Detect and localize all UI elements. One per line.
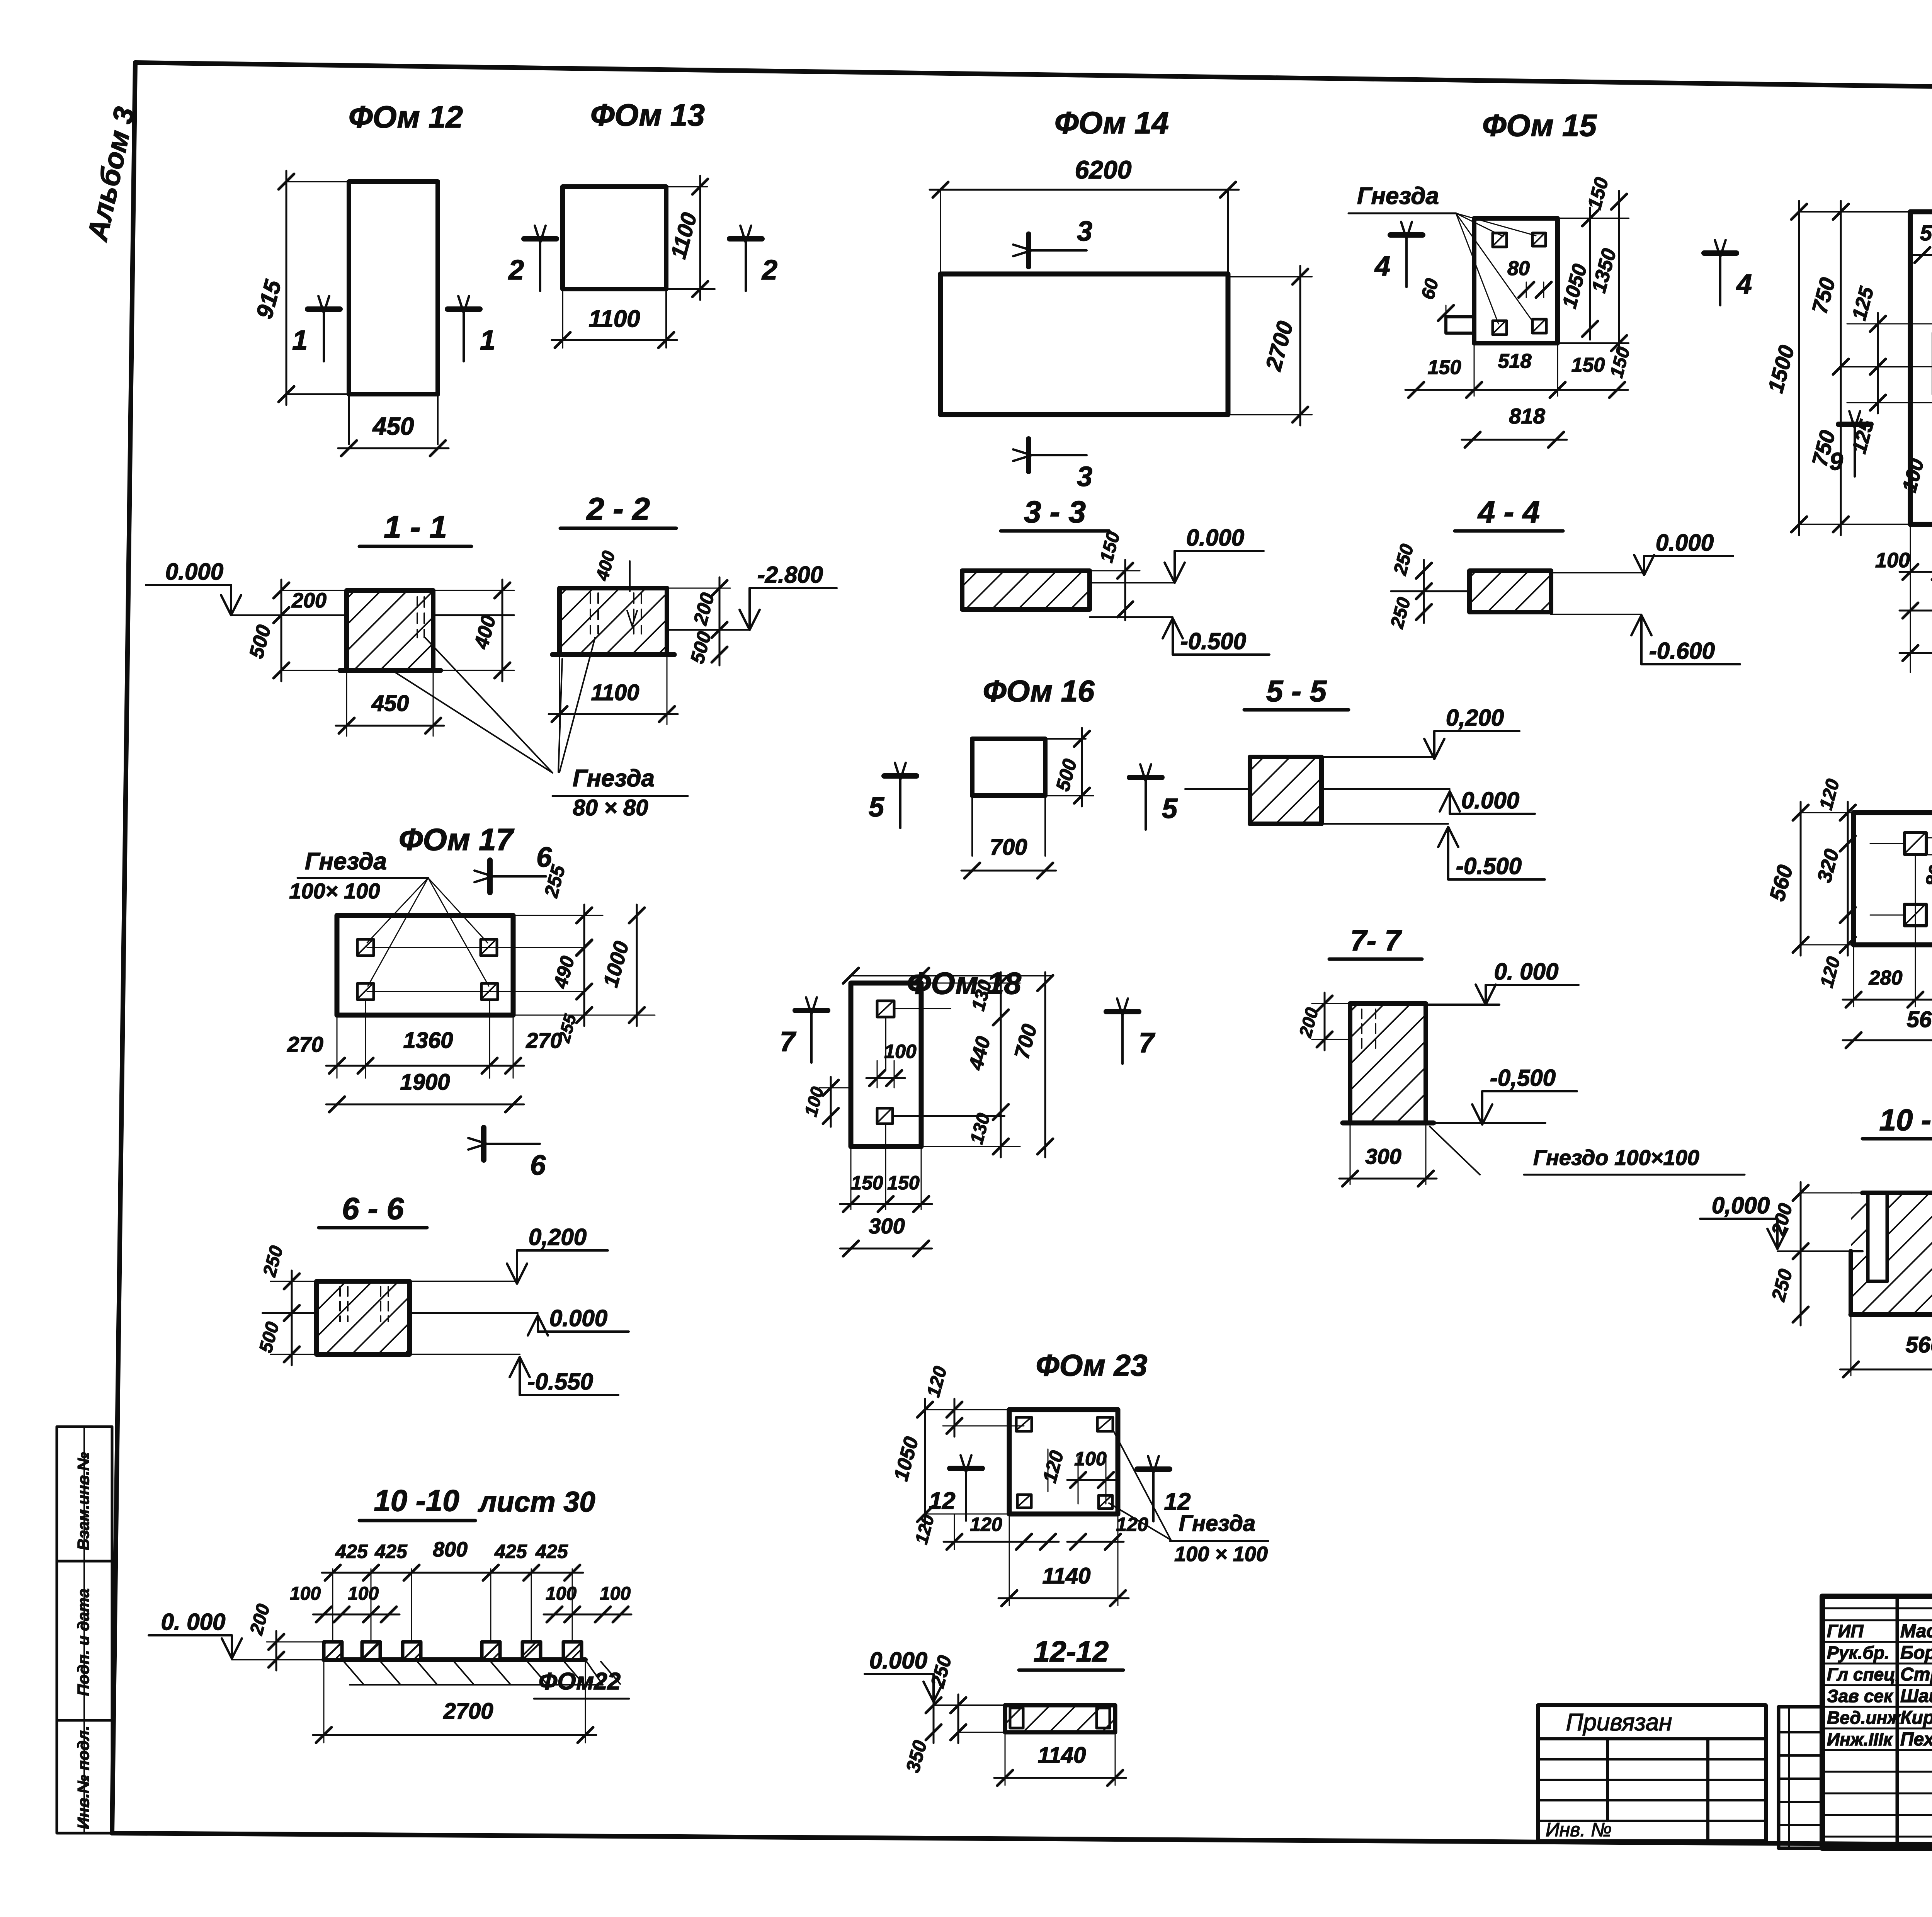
dim 150 (3-3) bbox=[1090, 529, 1140, 620]
svg-text:-0,500: -0,500 bbox=[1490, 1065, 1556, 1091]
dim 255 top right (FOm17) bbox=[513, 862, 603, 959]
svg-text:Инв.№ подл.: Инв.№ подл. bbox=[74, 1726, 92, 1829]
svg-text:0.000: 0.000 bbox=[1461, 788, 1519, 813]
svg-text:-2.800: -2.800 bbox=[757, 562, 823, 588]
svg-text:3 - 3: 3 - 3 bbox=[1024, 495, 1086, 529]
section marker 12 left (FOm23) bbox=[929, 1455, 982, 1521]
dim 100 inner (FOm19) bbox=[1898, 456, 1928, 495]
sockets hidden (2-2) bbox=[590, 593, 641, 634]
svg-text:0. 000: 0. 000 bbox=[161, 1609, 226, 1635]
label FOm13 bbox=[590, 98, 705, 132]
dims 425-425-800-425-425 (FOm22) bbox=[322, 1538, 583, 1642]
svg-text:425: 425 bbox=[335, 1541, 368, 1562]
svg-text:150: 150 bbox=[887, 1172, 920, 1194]
socket L-bottom (FOm20) bbox=[1905, 904, 1926, 926]
label FOm17 bbox=[399, 822, 515, 857]
svg-text:518: 518 bbox=[1498, 350, 1532, 373]
svg-text:ФОм 14: ФОм 14 bbox=[1054, 105, 1169, 140]
elevation -0.550 (6-6) bbox=[410, 1354, 618, 1395]
elevation 0.000 (3-3) bbox=[1090, 525, 1264, 583]
dim 50-250-50 (FOm19) bbox=[1912, 212, 1932, 514]
label FOm18 bbox=[907, 966, 1022, 1000]
svg-text:6200: 6200 bbox=[1075, 155, 1132, 184]
label FOm12 bbox=[349, 100, 463, 134]
svg-text:Кирьянова: Кирьянова bbox=[1900, 1708, 1932, 1728]
svg-text:0.000: 0.000 bbox=[1656, 530, 1714, 556]
dims right 150-1050-1350 (FOm15) bbox=[1558, 175, 1634, 380]
dim 700 (FOm16) bbox=[961, 835, 1056, 878]
svg-text:100: 100 bbox=[884, 1041, 917, 1062]
svg-text:560: 560 bbox=[1906, 1332, 1932, 1357]
socket A (FOm15) bbox=[1493, 233, 1507, 247]
section marker 12 right (FOm23) bbox=[1137, 1456, 1190, 1521]
dim 6200 (FOm14) bbox=[930, 155, 1239, 274]
section 3-3 hatched bar bbox=[962, 571, 1090, 609]
svg-text:425: 425 bbox=[494, 1541, 527, 1562]
label section 10-10 bbox=[1862, 1103, 1932, 1139]
svg-text:Пехенько: Пехенько bbox=[1900, 1729, 1932, 1750]
section marker 5 right (FOm16) bbox=[1129, 764, 1178, 830]
svg-text:Зав сек: Зав сек bbox=[1827, 1686, 1894, 1706]
block FOm23 plan outline bbox=[1009, 1410, 1118, 1514]
elevation 0.000 (12-12) bbox=[865, 1648, 1005, 1705]
svg-text:100: 100 bbox=[600, 1584, 631, 1604]
label FOm22 bbox=[534, 1662, 629, 1699]
svg-text:800: 800 bbox=[433, 1538, 468, 1561]
socket BR (FOm17) bbox=[481, 983, 498, 1000]
elevation -2.800 (2-2) bbox=[667, 562, 837, 630]
elevation 0.000 (6-6) bbox=[410, 1305, 629, 1335]
dim 1140 (12-12) bbox=[994, 1732, 1126, 1786]
svg-text:Гнезда: Гнезда bbox=[305, 848, 387, 875]
socket BL (FOm17) bbox=[357, 983, 374, 1000]
svg-text:5 - 5: 5 - 5 bbox=[1266, 674, 1327, 708]
svg-text:1: 1 bbox=[292, 325, 308, 356]
svg-text:80: 80 bbox=[1507, 257, 1530, 280]
svg-text:0.000: 0.000 bbox=[869, 1648, 927, 1674]
elevation 0.000 (FOm22) bbox=[149, 1609, 324, 1660]
stub line left (6-6) bbox=[263, 1312, 316, 1314]
dims 560-560 (FOm20) bbox=[1843, 1004, 1932, 1048]
svg-text:120: 120 bbox=[970, 1514, 1002, 1535]
label FOm14 bbox=[1054, 105, 1169, 140]
section 7-7 hatched block bbox=[1343, 1004, 1434, 1123]
elevation -0.500 (5-5) bbox=[1321, 824, 1545, 879]
label section 10-10 sheet 30 bbox=[359, 1483, 595, 1521]
dim 200 (FOm22) bbox=[246, 1602, 324, 1670]
dims left 120-560-120 (FOm20) bbox=[1765, 777, 1855, 990]
sockets note (FOm23) bbox=[1109, 1430, 1268, 1566]
dim 125 upper left (FOm19) bbox=[1847, 284, 1932, 378]
elevation 0.000 (4-4) bbox=[1551, 530, 1733, 575]
dim 1500 left (FOm19) bbox=[1763, 201, 1910, 535]
svg-text:300: 300 bbox=[1365, 1144, 1401, 1169]
dims bottom 270-1360-270 (FOm17) bbox=[287, 1000, 562, 1078]
svg-text:150: 150 bbox=[1571, 354, 1605, 376]
dims 100s (FOm22) bbox=[290, 1584, 631, 1622]
ground hatch (FOm22) bbox=[344, 1662, 620, 1685]
section marker 6 bottom (FOm17) bbox=[468, 1128, 546, 1181]
socket TL (FOm17) bbox=[357, 939, 374, 956]
svg-text:450: 450 bbox=[372, 412, 414, 440]
socket TR (FOm17) bbox=[481, 939, 497, 956]
elevation 0.200 (6-6) bbox=[410, 1224, 608, 1284]
socket BL (FOm23) bbox=[1017, 1495, 1031, 1508]
svg-text:Гнезда: Гнезда bbox=[573, 765, 655, 792]
dim 300 (7-7) bbox=[1339, 1123, 1437, 1186]
dim 100 inner (FOm18) bbox=[866, 1041, 917, 1088]
privyazan text bbox=[1566, 1709, 1672, 1736]
svg-text:-0.550: -0.550 bbox=[527, 1369, 593, 1395]
svg-text:0,200: 0,200 bbox=[529, 1224, 587, 1250]
svg-text:450: 450 bbox=[371, 691, 409, 716]
svg-text:1100: 1100 bbox=[588, 306, 640, 332]
svg-text:4 - 4: 4 - 4 bbox=[1477, 495, 1540, 529]
margin stamp text vzam bbox=[74, 1452, 92, 1550]
elevation -0.500 (3-3) bbox=[1090, 617, 1269, 655]
svg-text:-0.600: -0.600 bbox=[1649, 638, 1715, 664]
svg-text:0.000: 0.000 bbox=[1186, 525, 1244, 551]
svg-text:5: 5 bbox=[1162, 793, 1178, 824]
svg-text:1: 1 bbox=[480, 325, 495, 356]
blocks FOm20 plan outline bbox=[1854, 813, 1932, 945]
section marker 2 right (FOm13) bbox=[730, 226, 777, 291]
dims bottom 120s (FOm23) bbox=[911, 1512, 1148, 1550]
dims right 200-500 (2-2) bbox=[667, 577, 730, 666]
dim 100 inner (FOm23) bbox=[1067, 1448, 1117, 1504]
privyazan table frame bbox=[1538, 1705, 1766, 1841]
elevation 0.200 (5-5) bbox=[1321, 705, 1519, 759]
leader to sockets note (1-1) bbox=[392, 638, 553, 773]
section marker 3 top (FOm14) bbox=[1013, 216, 1092, 267]
section marker 1 right (FOm12) bbox=[447, 296, 495, 361]
section 1-1 hatched block bbox=[340, 590, 440, 670]
svg-text:6: 6 bbox=[530, 1150, 546, 1181]
elevation 0.000 (5-5) bbox=[1376, 788, 1535, 814]
dim 1100 (2-2) bbox=[549, 655, 678, 725]
elevation 0.000 (7-7) bbox=[1426, 959, 1578, 1005]
svg-text:ФОм22: ФОм22 bbox=[539, 1668, 621, 1695]
svg-text:100 × 100: 100 × 100 bbox=[1174, 1543, 1268, 1566]
svg-text:7- 7: 7- 7 bbox=[1350, 924, 1403, 957]
dims left 200-500 (1-1) bbox=[245, 580, 347, 681]
socket D (FOm15) bbox=[1532, 319, 1546, 333]
svg-text:ФОм 17: ФОм 17 bbox=[399, 822, 515, 857]
svg-text:0,000: 0,000 bbox=[1712, 1192, 1770, 1218]
dim 2700 (FOm22) bbox=[313, 1660, 596, 1743]
svg-text:280: 280 bbox=[1869, 967, 1903, 989]
svg-text:Масленков: Масленков bbox=[1900, 1621, 1932, 1641]
socket B (FOm15) bbox=[1532, 233, 1546, 246]
block FOm15 plan outline bbox=[1474, 218, 1558, 343]
dims below 750-750 (FOm19) bbox=[1900, 579, 1932, 618]
svg-text:3: 3 bbox=[1077, 216, 1092, 247]
socket L-top (FOm20) bbox=[1905, 833, 1926, 854]
svg-text:-0.500: -0.500 bbox=[1456, 853, 1522, 879]
sockets hidden (6-6) bbox=[340, 1287, 388, 1322]
socket BR (FOm23) bbox=[1099, 1495, 1112, 1509]
svg-text:300: 300 bbox=[869, 1214, 905, 1238]
block FOm17 plan outline bbox=[337, 915, 513, 1015]
margin stamp boxes frame bbox=[57, 1427, 112, 1833]
dim 818 (FOm15) bbox=[1462, 404, 1567, 447]
dims bottom 150-150 (FOm18) bbox=[840, 1124, 932, 1212]
dim 700 right (FOm18) bbox=[1010, 972, 1053, 1157]
svg-text:12-12: 12-12 bbox=[1034, 1635, 1109, 1668]
svg-text:Вед.инж: Вед.инж bbox=[1827, 1708, 1901, 1728]
svg-text:100: 100 bbox=[1074, 1448, 1107, 1470]
section 10-10 hatched body bbox=[1851, 1193, 1932, 1315]
svg-text:12: 12 bbox=[929, 1488, 956, 1514]
elevation 0.000 (10-10) bbox=[1700, 1192, 1851, 1251]
sockets note text (common 1-1/2-2) bbox=[553, 765, 688, 820]
svg-text:Инв. №: Инв. № bbox=[1546, 1819, 1612, 1840]
section 12-12 hatched bar bbox=[1005, 1705, 1115, 1732]
svg-text:4: 4 bbox=[1374, 251, 1390, 282]
section marker 7 right (FOm18) bbox=[1106, 998, 1155, 1064]
stub lines (5-5) bbox=[1185, 788, 1376, 790]
svg-text:1100: 1100 bbox=[591, 680, 639, 705]
dim 450 (FOm12) bbox=[338, 412, 449, 456]
section 4-4 hatched block bbox=[1469, 571, 1551, 612]
dims right 130-440-130 (FOm18) bbox=[921, 972, 1020, 1157]
elevation 0.000 (1-1) bbox=[146, 559, 347, 615]
socket centre lines (FOm20) bbox=[1870, 844, 1932, 958]
svg-text:-0.500: -0.500 bbox=[1180, 628, 1246, 654]
dim 1900 (FOm17) bbox=[326, 1070, 524, 1112]
end sockets (12-12) bbox=[1010, 1708, 1110, 1728]
dim 450 (1-1) bbox=[336, 670, 444, 736]
section 5-5 hatched block bbox=[1250, 757, 1321, 824]
svg-text:0,200: 0,200 bbox=[1446, 705, 1504, 731]
socket hidden (1-1) bbox=[417, 597, 424, 638]
svg-text:0.000: 0.000 bbox=[549, 1305, 607, 1331]
svg-text:Привязан: Привязан bbox=[1566, 1709, 1672, 1736]
dim below 1500 (FOm19) bbox=[1900, 622, 1932, 661]
svg-text:Гл спец.: Гл спец. bbox=[1827, 1664, 1900, 1684]
inv no text bbox=[1546, 1819, 1612, 1840]
svg-text:ФОм 23: ФОм 23 bbox=[1036, 1348, 1148, 1382]
socket TL (FOm23) bbox=[1016, 1417, 1032, 1431]
svg-text:2 - 2: 2 - 2 bbox=[586, 492, 650, 527]
svg-text:4: 4 bbox=[1736, 269, 1752, 300]
title block outer frame bbox=[1822, 1596, 1932, 1848]
section marker 1 left (FOm12) bbox=[292, 296, 340, 361]
svg-text:270: 270 bbox=[526, 1028, 562, 1053]
block FOm16 plan outline bbox=[972, 739, 1094, 856]
dims bottom 280x4 (FOm20) bbox=[1843, 945, 1932, 1007]
dim 1140 (FOm23) bbox=[998, 1514, 1129, 1606]
svg-text:2: 2 bbox=[761, 255, 777, 286]
label section 2-2 bbox=[560, 492, 676, 528]
svg-text:150: 150 bbox=[851, 1172, 883, 1194]
svg-text:6 - 6: 6 - 6 bbox=[342, 1191, 404, 1226]
label FOm23 bbox=[1036, 1348, 1148, 1382]
section 6-6 hatched block bbox=[316, 1281, 410, 1354]
svg-text:5: 5 bbox=[869, 792, 884, 823]
title block signatures bbox=[1827, 1621, 1932, 1750]
dim 200 left (7-7) bbox=[1295, 993, 1350, 1050]
svg-text:1900: 1900 bbox=[400, 1070, 450, 1095]
dims left 250-500 (6-6) bbox=[255, 1243, 316, 1365]
svg-text:ФОм 12: ФОм 12 bbox=[349, 100, 463, 134]
dim 60 (FOm15) bbox=[1418, 276, 1454, 321]
section marker 6 top (FOm17) bbox=[474, 842, 552, 893]
dim 560 (10-10) bbox=[1840, 1315, 1932, 1377]
svg-text:700: 700 bbox=[990, 835, 1027, 860]
svg-text:7: 7 bbox=[1139, 1027, 1155, 1058]
svg-text:560: 560 bbox=[1907, 1007, 1932, 1032]
socket leads (FOm18) bbox=[886, 1009, 1005, 1116]
section marker 4 left (FOm15) bbox=[1374, 222, 1423, 287]
margin stamp text podp bbox=[74, 1589, 92, 1696]
elevation -0.500 (7-7) bbox=[1426, 1065, 1577, 1124]
dim 400 socket depth (2-2) bbox=[592, 549, 637, 626]
label section 7-7 bbox=[1329, 924, 1422, 959]
sockets note (FOm15) bbox=[1349, 183, 1536, 324]
label FOm16 bbox=[983, 674, 1095, 708]
svg-text:100: 100 bbox=[290, 1584, 321, 1604]
svg-text:Гнезда: Гнезда bbox=[1179, 1511, 1255, 1536]
label section 12-12 bbox=[1019, 1635, 1123, 1670]
svg-text:Взам.инв.№: Взам.инв.№ bbox=[74, 1452, 92, 1550]
svg-text:425: 425 bbox=[535, 1541, 568, 1562]
svg-text:1360: 1360 bbox=[403, 1028, 453, 1053]
svg-text:1 - 1: 1 - 1 bbox=[384, 510, 447, 545]
section marker 7 left (FOm18) bbox=[780, 997, 828, 1063]
label FOm15 bbox=[1482, 108, 1597, 143]
label section 4-4 bbox=[1455, 495, 1563, 531]
dims left 250-350 (12-12) bbox=[902, 1653, 1005, 1775]
dim 100 left (FOm18) bbox=[800, 1077, 851, 1127]
section marker 4 right (FOm15) bbox=[1704, 240, 1752, 305]
svg-text:ФОм 13: ФОм 13 bbox=[590, 98, 705, 132]
svg-text:Рук.бр.: Рук.бр. bbox=[1827, 1643, 1889, 1663]
svg-text:Инж.IIIк: Инж.IIIк bbox=[1827, 1729, 1893, 1749]
svg-text:270: 270 bbox=[287, 1032, 323, 1056]
svg-text:100: 100 bbox=[546, 1584, 577, 1604]
svg-text:Подп. и дата: Подп. и дата bbox=[74, 1589, 92, 1696]
svg-text:425: 425 bbox=[374, 1541, 408, 1562]
socket hidden (7-7) bbox=[1362, 1009, 1376, 1053]
svg-text:200: 200 bbox=[291, 589, 327, 612]
block FOm18 plan outline bbox=[843, 968, 1051, 1146]
dim 1100 bottom (FOm13) bbox=[552, 306, 677, 348]
svg-text:2: 2 bbox=[508, 255, 524, 286]
svg-text:100: 100 bbox=[348, 1584, 379, 1604]
svg-text:2700: 2700 bbox=[443, 1699, 493, 1724]
elevation -0.600 (4-4) bbox=[1551, 614, 1740, 664]
dim 1050 left (FOm23) bbox=[890, 1399, 1009, 1525]
svg-text:1140: 1140 bbox=[1043, 1563, 1091, 1589]
left stub line (4-4) bbox=[1391, 590, 1469, 592]
svg-text:10 - 10: 10 - 10 bbox=[1879, 1103, 1932, 1137]
beam baseline (FOm22) bbox=[324, 1657, 585, 1662]
block FOm13 plan outline bbox=[563, 187, 715, 348]
socket C (FOm15) bbox=[1493, 321, 1507, 335]
dim 125 lower left (FOm19) bbox=[1847, 356, 1932, 456]
svg-text:1140: 1140 bbox=[1038, 1743, 1086, 1768]
socket note (7-7) bbox=[1430, 1126, 1745, 1175]
centre lines (FOm19) bbox=[1910, 367, 1932, 524]
svg-text:7: 7 bbox=[780, 1026, 796, 1057]
dim 300 (FOm18) bbox=[840, 1214, 932, 1256]
dims below 100-550 (FOm19) bbox=[1875, 524, 1932, 672]
svg-text:3: 3 bbox=[1077, 461, 1092, 492]
label section 5-5 bbox=[1244, 674, 1349, 710]
section marker 2 left (FOm13) bbox=[508, 226, 556, 291]
section marker 5 left (FOm16) bbox=[869, 763, 917, 828]
title block signature grid bbox=[1822, 1596, 1932, 1848]
svg-text:Шайхратова: Шайхратова bbox=[1900, 1686, 1932, 1706]
svg-text:100× 100: 100× 100 bbox=[289, 879, 380, 903]
svg-text:0. 000: 0. 000 bbox=[1494, 959, 1559, 985]
dim 80 left block (FOm20) bbox=[1921, 827, 1932, 890]
leader lines to sockets note (2-2) bbox=[558, 638, 595, 772]
slab FOm19 plan outline bbox=[1910, 212, 1932, 524]
section marker 9 left (FOm19) bbox=[1829, 411, 1871, 476]
svg-text:10 -10: 10 -10 bbox=[374, 1483, 459, 1517]
socket bottom (FOm18) bbox=[877, 1108, 893, 1124]
album note (Альбом 3) bbox=[81, 104, 141, 244]
title block left extension bbox=[1779, 1707, 1822, 1848]
section marker 3 bottom (FOm14) bbox=[1013, 439, 1092, 492]
dim 80 (FOm15) bbox=[1507, 257, 1551, 298]
dim 915 (FOm12) bbox=[251, 171, 349, 405]
svg-text:100: 100 bbox=[1875, 549, 1910, 572]
svg-text:ГИП: ГИП bbox=[1827, 1621, 1864, 1641]
svg-text:ФОм 15: ФОм 15 bbox=[1482, 108, 1597, 143]
dims left 200-250 (10-10) bbox=[1767, 1182, 1862, 1325]
dim 120 inner (FOm23) bbox=[1039, 1448, 1068, 1492]
svg-text:818: 818 bbox=[1509, 404, 1545, 428]
block FOm12 plan outline bbox=[349, 182, 438, 444]
svg-text:Борщинов: Борщинов bbox=[1900, 1643, 1932, 1663]
socket top (FOm18) bbox=[877, 1001, 894, 1017]
label section 6-6 bbox=[319, 1191, 427, 1228]
svg-text:Гнезда: Гнезда bbox=[1357, 183, 1439, 209]
dim 2700 (FOm14) bbox=[1228, 266, 1312, 425]
dim 1100 right (FOm13) bbox=[666, 176, 708, 300]
svg-text:150: 150 bbox=[1428, 356, 1461, 379]
svg-text:80 × 80: 80 × 80 bbox=[573, 795, 648, 820]
dims bottom 150-518-150 (FOm15) bbox=[1405, 343, 1628, 398]
dims left 250-250 (4-4) bbox=[1387, 542, 1432, 631]
socket TR (FOm23) bbox=[1097, 1417, 1113, 1431]
dims right 490-1000-255 (FOm17) bbox=[367, 905, 655, 1045]
block FOm14 plan outline bbox=[940, 274, 1228, 415]
svg-text:Гнездо 100×100: Гнездо 100×100 bbox=[1533, 1145, 1699, 1170]
label section 1-1 bbox=[359, 510, 471, 546]
sockets note (FOm17) bbox=[289, 848, 489, 986]
dim right 400 (1-1) bbox=[433, 580, 514, 681]
svg-text:50: 50 bbox=[1920, 221, 1932, 245]
left tab (FOm15) bbox=[1446, 317, 1474, 333]
pile squares (FOm22) bbox=[324, 1642, 582, 1660]
dim 500 right (FOm16) bbox=[1052, 728, 1090, 806]
svg-text:ФОм 16: ФОм 16 bbox=[983, 674, 1095, 708]
label section 3-3 bbox=[1001, 495, 1109, 531]
svg-text:Стрехнин: Стрехнин bbox=[1900, 1664, 1932, 1685]
dim 750-750 left (FOm19) bbox=[1807, 201, 1910, 535]
section 2-2 hatched block bbox=[553, 588, 674, 655]
margin stamp text inv bbox=[74, 1726, 92, 1829]
svg-text:0.000: 0.000 bbox=[165, 559, 223, 585]
svg-text:лист 30: лист 30 bbox=[478, 1486, 595, 1518]
dim 120 top (FOm23) bbox=[923, 1364, 1024, 1437]
